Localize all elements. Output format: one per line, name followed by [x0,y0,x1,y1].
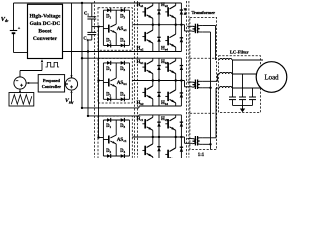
filter capacitor Cf3 [252,88,254,97]
phase line row 1 [132,24,184,26]
cell 1 bottom wire [103,44,129,46]
T1 secondary top to filter line1 [202,25,215,27]
filter inductor L2 [220,72,232,74]
ground [242,105,244,108]
svg-text:1:1: 1:1 [198,153,205,158]
hbridge row 2 bottom rail [139,105,181,107]
switching cell 2 dashed box [98,58,132,103]
IGBT 1 lower-left [152,25,154,30]
IGBT 3 lower-right [175,137,177,148]
cell 3 bottom wire [103,155,129,157]
PWM comparator circle [14,77,26,89]
IGBT 1 upper-left [152,3,154,5]
voltage summing junction [65,78,77,90]
phase line row 2 [132,80,184,82]
transformer column dashed box [190,18,217,150]
cell 2 diode D4 [121,97,125,101]
svg-text:D4: D4 [120,39,125,44]
phase jog row 2 [184,81,186,87]
cell 1 right wire [129,10,131,45]
svg-text:D4: D4 [120,93,125,98]
cell 3 right wire [129,120,131,156]
diode lower-right row 1 [180,25,182,52]
svg-text:Ha3: Ha3 [161,3,168,8]
svg-text:Hb3: Hb3 [161,60,168,65]
row2 top feed [82,57,139,59]
svg-text:D1: D1 [106,67,111,72]
phase line row 3 [132,136,184,138]
cell 1 top wire [103,9,129,11]
primary top stub row 2 [187,81,192,83]
svg-text:D2: D2 [106,149,111,154]
transformer divider 1 [190,57,217,59]
phase jog row 3 [184,137,186,143]
wire battery to converter (bottom) [14,52,28,54]
filter common rail [233,104,253,106]
svg-text:D3: D3 [120,124,125,129]
hbridge row 3 top rail [139,114,181,116]
cell 2 diode D2 [107,97,111,101]
T3 secondary bottom to neutral [202,143,210,145]
dashed border hbridge right B [188,1,190,158]
capacitor C1 [91,3,93,17]
node mark top rail end [184,8,187,15]
cell 2 diode D1 [107,61,111,65]
svg-text:Converter: Converter [33,36,58,42]
filter inductor L1 [220,58,232,60]
cell 3 diode D3 [121,118,125,122]
cell 1 left wire [102,10,104,45]
DC bus vertical 2 [87,40,89,115]
dashed border hbridge left [137,1,139,158]
switching cell 1 dashed box [98,8,132,51]
diode lower-left row 1 [158,25,160,52]
IGBT 3 upper-right [175,115,177,117]
IGBT 2 lower-right [175,81,177,90]
T2 secondary top to filter line2 [202,80,217,82]
transformer T3 [192,139,195,144]
primary top stub row 1 [187,25,192,27]
cell bus vertical [98,27,100,138]
DC bus vertical 1 [81,3,83,108]
svg-text:LC-Filter: LC-Filter [230,50,249,55]
IGBT 3 lower-left [152,137,154,144]
svg-text:Ha4: Ha4 [161,46,168,51]
cell 2 diode D3 [121,61,125,65]
svg-text:D4: D4 [120,149,125,154]
High-Voltage Gain DC-DC Boost Converter block [28,4,63,58]
svg-text:High-Voltage: High-Voltage [30,14,62,20]
primary top stub row 3 [187,138,192,140]
svg-text:Boost: Boost [38,28,51,34]
filter capacitor Cf2 [242,74,244,97]
dashed border cell column right [134,1,136,158]
battery Vdc [13,3,15,30]
LC filter dashed box [219,56,261,113]
gate drive wire into converter [41,63,43,71]
cell 3 top wire [103,119,129,121]
svg-text:Hb1: Hb1 [137,60,144,65]
diode upper-right row 2 [180,58,182,80]
wire summing to controller [64,83,67,85]
capacitor C2 [87,31,96,33]
cell 1 IGBT AS<tspan font-size="3.4" dy="1.0">a1</tspan> [115,10,117,24]
hbridge row 2 top rail [139,57,181,59]
cell 2 bottom wire [103,98,129,100]
diode upper-left row 3 [158,115,160,137]
svg-text:D2: D2 [106,93,111,98]
cell 1 diode D4 [121,44,125,48]
carrier (sawtooth) generator [9,93,34,107]
DC-link feedback line [71,3,73,78]
cap midpoint tap [92,26,99,28]
diode lower-right row 3 [180,137,182,158]
cell 2 right wire [129,63,131,99]
Proposed Controller block [38,75,64,92]
diode lower-left row 2 [158,81,160,107]
svg-text:D3: D3 [120,67,125,72]
svg-text:Hb4: Hb4 [161,101,168,106]
dashed border hbridge right A [185,1,187,158]
cell 3 diode D1 [107,118,111,122]
svg-text:D2: D2 [106,39,111,44]
filter capacitor Cf1 [232,60,234,97]
row1 bottom feed dot [87,50,89,52]
load circle [256,62,287,93]
IGBT 1 lower-right [175,25,177,34]
cell 1 output tap [99,26,104,28]
transformer T2 [192,82,195,87]
IGBT 3 upper-left [152,115,154,117]
T2 secondary bottom to neutral [202,87,210,89]
svg-text:Load: Load [265,75,280,82]
cell 1 diode D1 [107,8,111,12]
svg-text:Hc1: Hc1 [137,117,144,122]
row3 top feed [88,115,139,117]
IGBT 2 upper-left [152,58,154,60]
svg-text:D1: D1 [106,124,111,129]
row2 bottom feed [82,107,139,109]
svg-text:Ha2: Ha2 [137,46,144,51]
svg-text:Controller: Controller [42,84,61,89]
diode upper-right row 1 [180,3,182,25]
IGBT 2 upper-right [175,58,177,60]
svg-text:D1: D1 [106,14,111,19]
T1 secondary bottom to neutral [202,31,210,33]
wire controller to comparator [26,82,38,84]
cell 3 IGBT AS<tspan font-size="3.4" dy="1.0">c1</tspan> [115,120,117,135]
switching cell 3 dashed box [98,116,132,159]
diode upper-left row 1 [158,3,160,25]
cell 3 diode D4 [121,154,125,158]
top DC rail [14,2,182,4]
IGBT 2 lower-left [152,81,154,86]
diode lower-left row 3 [158,137,160,158]
cell 2 IGBT AS<tspan font-size="3.4" dy="1.0">b1</tspan> [115,63,117,78]
cell 2 top wire [103,62,129,64]
cell 3 diode D2 [107,154,111,158]
svg-text:Ha1: Ha1 [137,3,144,8]
diode upper-left row 2 [158,58,160,80]
svg-text:Proposed: Proposed [43,78,61,83]
phase jog row 1 [184,25,186,31]
svg-text:Hb2: Hb2 [137,101,144,106]
cell 2 output tap [99,80,104,82]
IGBT 1 upper-right [175,3,177,5]
PWM pulse symbol [46,62,60,67]
cell 1 diode D2 [107,44,111,48]
diode upper-right row 3 [180,115,182,137]
svg-text:Transformer: Transformer [192,10,216,15]
svg-text:Hc3: Hc3 [161,117,168,122]
dashed border cell column left [94,1,96,158]
hbridge row 1 bottom rail [63,51,182,53]
svg-text:D3: D3 [120,14,125,19]
cell 1 diode D3 [121,8,125,12]
node bus2 top [81,2,83,4]
transformer divider 2 [190,112,217,114]
T3 secondary top to filter line3 [202,137,216,139]
diode lower-right row 2 [180,81,182,107]
cell 3 left wire [102,120,104,156]
cell 3 output tap [99,137,104,139]
transformer T1 [192,26,195,31]
svg-text:Gain DC-DC: Gain DC-DC [30,21,61,27]
cell 2 left wire [102,63,104,99]
filter inductor L3 [220,86,232,88]
